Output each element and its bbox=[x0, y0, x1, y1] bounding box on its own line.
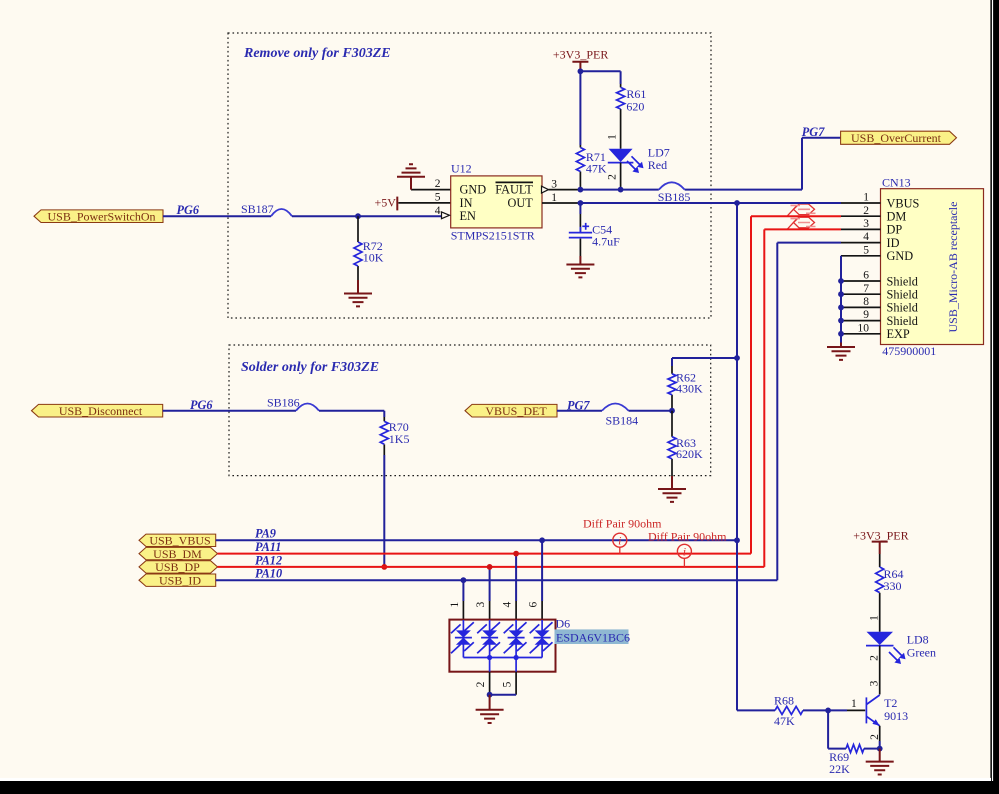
svg-text:22K: 22K bbox=[829, 762, 850, 776]
port flag USB_ID bbox=[139, 573, 216, 587]
diff pair directive marker 1 bbox=[613, 533, 627, 553]
svg-text:GND: GND bbox=[887, 249, 914, 263]
dashed box: Solder only for F303ZE bbox=[229, 345, 711, 476]
node junction emitter/R69 bbox=[877, 746, 883, 752]
wire LD8 to T2 collector bbox=[879, 646, 881, 695]
T2 emitter wire bbox=[879, 726, 881, 749]
node junction R71 on FAULT bbox=[578, 187, 584, 193]
svg-text:SB186: SB186 bbox=[267, 396, 300, 410]
wire USB_DP PA12 bbox=[218, 229, 842, 567]
svg-text:USB_ID: USB_ID bbox=[159, 573, 201, 587]
node junction R62 wire on VBUS vertical bbox=[734, 355, 740, 361]
dashed box: Remove only for F303ZE bbox=[228, 33, 711, 318]
svg-text:Diff Pair 90ohm: Diff Pair 90ohm bbox=[648, 529, 727, 543]
svg-text:Solder only for F303ZE: Solder only for F303ZE bbox=[241, 360, 379, 375]
node junction SB184/R62/R63 bbox=[669, 408, 675, 414]
resistor R62 bbox=[668, 358, 703, 411]
svg-text:47K: 47K bbox=[586, 162, 607, 176]
diff pair directive marker 2 bbox=[677, 544, 691, 567]
resistor R68 bbox=[774, 694, 803, 728]
D6 pin1 stub bbox=[462, 601, 464, 620]
node junction C54 on OUT bbox=[578, 200, 584, 206]
wire D6 pin1 to USB_ID bbox=[462, 580, 464, 601]
solder bridge SB187 bbox=[241, 202, 292, 216]
ground below T2 bbox=[866, 749, 894, 775]
bottom black bar bbox=[0, 781, 999, 794]
TVS diode cell 4 bbox=[530, 620, 553, 658]
LED LD8 bbox=[866, 632, 936, 664]
wire U12 OUT to CN13 VBUS bbox=[542, 202, 580, 204]
differential pair twist marker on DP bbox=[788, 217, 816, 229]
wire SB184 to R62/R63 node bbox=[629, 410, 673, 412]
svg-text:+3V3_PER: +3V3_PER bbox=[853, 528, 908, 542]
solder bridge SB185 bbox=[658, 182, 691, 204]
ground at U12 pin 2 (inverted) bbox=[397, 164, 451, 189]
svg-text:9: 9 bbox=[863, 309, 869, 321]
svg-text:5: 5 bbox=[435, 192, 441, 204]
connector CN13 body bbox=[881, 175, 984, 358]
resistor R70 bbox=[380, 417, 409, 455]
svg-text:U12: U12 bbox=[451, 161, 472, 175]
svg-text:430K: 430K bbox=[676, 382, 703, 396]
node junction vertical on OUT/VBUS bbox=[734, 200, 740, 206]
svg-text:SB184: SB184 bbox=[606, 413, 639, 427]
wire U12 FAULT net bbox=[549, 189, 581, 191]
wire R68 from VBUS vertical bbox=[737, 709, 775, 711]
TVS array D6 body bbox=[449, 620, 555, 672]
ground below C54 bbox=[566, 256, 594, 277]
wire R68 to T2 base bbox=[803, 709, 847, 711]
CN13 pin names bbox=[887, 196, 920, 341]
solder bridge SB184 bbox=[602, 404, 638, 428]
D6 internal common bus bbox=[463, 655, 542, 660]
wire R62 top to VBUS vertical bbox=[672, 357, 737, 359]
capacitor C54 bbox=[569, 203, 620, 256]
svg-text:USB_OverCurrent: USB_OverCurrent bbox=[851, 131, 942, 145]
svg-text:475900001: 475900001 bbox=[882, 344, 936, 358]
svg-text:PA12: PA12 bbox=[255, 553, 282, 567]
svg-text:FAULT: FAULT bbox=[495, 183, 533, 197]
right window edge black band bbox=[990, 0, 999, 794]
svg-text:5: 5 bbox=[502, 681, 514, 687]
svg-text:6: 6 bbox=[528, 601, 540, 607]
D6 pin 5 bbox=[515, 658, 517, 695]
svg-text:330: 330 bbox=[884, 579, 902, 593]
ground below R72 bbox=[344, 280, 372, 306]
solder bridge SB186 bbox=[267, 396, 319, 411]
svg-text:ID: ID bbox=[887, 236, 900, 250]
svg-text:1: 1 bbox=[851, 698, 857, 710]
svg-text:OUT: OUT bbox=[508, 196, 534, 210]
svg-text:LD8: LD8 bbox=[907, 633, 929, 647]
svg-text:VBUS_DET: VBUS_DET bbox=[485, 404, 547, 418]
wire USB_VBUS PA9 bbox=[216, 539, 737, 541]
port flag USB_DM bbox=[139, 547, 218, 561]
svg-text:47K: 47K bbox=[774, 714, 795, 728]
wire D6 pin4 to USB_DM bbox=[515, 554, 517, 601]
svg-text:620K: 620K bbox=[676, 447, 703, 461]
wire D6 pin6 to USB_VBUS bbox=[541, 540, 543, 601]
svg-text:PA11: PA11 bbox=[255, 540, 281, 554]
svg-text:3: 3 bbox=[863, 218, 869, 230]
node junction D6 pin6 on VBUS bbox=[539, 537, 545, 543]
wire R69 branch bbox=[828, 710, 846, 748]
U12 EN input triangle bbox=[442, 212, 450, 219]
differential pair twist marker on DM bbox=[788, 204, 816, 216]
svg-text:USB_DM: USB_DM bbox=[153, 547, 202, 561]
svg-text:4: 4 bbox=[863, 231, 869, 243]
svg-text:2: 2 bbox=[863, 205, 869, 217]
TVS diode cell 2 bbox=[477, 620, 500, 658]
ground below R63 bbox=[658, 476, 686, 502]
port flag VBUS_DET bbox=[465, 404, 557, 418]
svg-text:4.7uF: 4.7uF bbox=[592, 234, 620, 248]
svg-text:1K5: 1K5 bbox=[389, 432, 410, 446]
svg-text:Remove only for F303ZE: Remove only for F303ZE bbox=[243, 46, 391, 61]
node junction at +3V3_PER bbox=[578, 68, 584, 74]
wire +5V to U12 IN bbox=[398, 202, 450, 204]
port flag USB_PowerSwitchOn bbox=[34, 209, 163, 223]
svg-text:DP: DP bbox=[887, 223, 903, 237]
svg-text:PG6: PG6 bbox=[177, 203, 200, 217]
svg-text:R68: R68 bbox=[774, 694, 794, 708]
svg-text:USB_VBUS: USB_VBUS bbox=[149, 534, 210, 548]
ground below CN13 bbox=[827, 343, 855, 360]
CN13 pin stubs 1-10 bbox=[841, 203, 881, 334]
port flag USB_OverCurrent bbox=[841, 131, 957, 145]
node junction D6 pin1 on ID bbox=[461, 577, 467, 583]
svg-text:i: i bbox=[618, 534, 621, 548]
svg-text:USB_Micro-AB receptacle: USB_Micro-AB receptacle bbox=[946, 202, 960, 333]
D6 pin 2 bbox=[489, 658, 491, 695]
resistor R71 bbox=[576, 145, 607, 190]
svg-text:1: 1 bbox=[449, 601, 461, 607]
wire VBUS_DET to SB184 bbox=[557, 410, 602, 412]
svg-text:ESDA6V1BC6: ESDA6V1BC6 bbox=[556, 631, 630, 645]
wire USB_ID PA10 bbox=[216, 243, 841, 581]
svg-text:i: i bbox=[683, 545, 686, 559]
resistor R69 bbox=[829, 745, 864, 776]
TVS diode cell 1 bbox=[451, 620, 474, 658]
D6 pin4 stub bbox=[515, 601, 517, 620]
node junction R70 on DP bbox=[381, 564, 387, 570]
svg-text:+5V: +5V bbox=[375, 195, 397, 209]
svg-text:STMPS2151STR: STMPS2151STR bbox=[451, 229, 535, 243]
svg-text:1: 1 bbox=[869, 615, 881, 621]
svg-text:Red: Red bbox=[648, 158, 667, 172]
node junctions on shield bus bbox=[838, 278, 844, 337]
U12 pin numbers bbox=[435, 178, 557, 217]
D6 value highlight ESDA6V1BC6 bbox=[555, 629, 631, 644]
node junction VBUS line and vertical bbox=[734, 537, 740, 543]
power port +3V3_PER (right) bbox=[853, 528, 908, 554]
svg-text:SB185: SB185 bbox=[658, 190, 691, 204]
svg-text:CN13: CN13 bbox=[882, 175, 911, 189]
resistor R63 bbox=[668, 411, 703, 476]
svg-text:620: 620 bbox=[626, 100, 644, 114]
wire D6 pin3 to USB_DP bbox=[489, 567, 491, 601]
svg-text:SB187: SB187 bbox=[241, 202, 274, 216]
op-amp U12 STMPS2151STR body bbox=[451, 161, 542, 242]
transistor T2 bbox=[866, 695, 908, 726]
svg-text:D6: D6 bbox=[556, 617, 571, 631]
wire D6 pin5 to pin2 bbox=[490, 694, 516, 696]
right edge white pinstripe bbox=[992, 0, 993, 781]
LED LD7 bbox=[608, 146, 670, 173]
wire OUT net bbox=[580, 202, 841, 204]
svg-text:VBUS: VBUS bbox=[887, 196, 920, 210]
svg-text:Shield: Shield bbox=[887, 314, 918, 328]
svg-text:PA10: PA10 bbox=[255, 567, 282, 581]
svg-text:Shield: Shield bbox=[887, 301, 918, 315]
svg-text:PG7: PG7 bbox=[802, 125, 825, 139]
port flag USB_Disconnect bbox=[32, 404, 163, 418]
svg-text:10K: 10K bbox=[363, 250, 384, 264]
node junction D6 ground bbox=[487, 692, 493, 698]
wire SB186 to R70 bbox=[319, 411, 384, 417]
svg-text:Green: Green bbox=[907, 646, 936, 660]
svg-text:GND: GND bbox=[460, 183, 487, 197]
node junction on EN wire at R72 bbox=[355, 213, 361, 219]
D6 pin6 stub bbox=[541, 601, 543, 620]
wire +3V3_PER to R71 and R61 bbox=[580, 71, 620, 145]
LD7 cathode pin wire bbox=[620, 163, 622, 190]
wire VBUS vertical to CN13 pin1 and R68 bbox=[737, 203, 841, 710]
svg-text:EN: EN bbox=[460, 209, 477, 223]
svg-text:PA9: PA9 bbox=[255, 527, 276, 541]
U12 FAULT output triangle pin 3 bbox=[542, 186, 549, 193]
resistor R64 bbox=[876, 554, 904, 632]
node junction base/R69 bbox=[825, 708, 831, 714]
node junction LD7 on FAULT bbox=[618, 187, 624, 193]
svg-text:6: 6 bbox=[863, 270, 869, 282]
svg-text:2: 2 bbox=[475, 681, 487, 687]
port flag USB_DP bbox=[139, 560, 218, 574]
svg-text:USB_DP: USB_DP bbox=[155, 560, 200, 574]
port flag USB_VBUS bbox=[139, 534, 216, 548]
wire R70 to USB_DP line bbox=[383, 455, 385, 567]
wire USB_DM PA11 bbox=[218, 216, 842, 553]
svg-text:7: 7 bbox=[863, 283, 869, 295]
wire CN13 GND/Shield bus bbox=[840, 256, 842, 343]
ground below D6 bbox=[476, 695, 504, 723]
resistor R72 bbox=[354, 216, 384, 280]
svg-text:10: 10 bbox=[858, 322, 870, 334]
TVS diode cell 3 bbox=[504, 620, 527, 658]
svg-text:2: 2 bbox=[606, 174, 618, 180]
svg-text:4: 4 bbox=[502, 601, 514, 607]
wire USB_Disconnect to SB186 bbox=[163, 410, 296, 412]
svg-text:DM: DM bbox=[887, 210, 907, 224]
power port +5V bbox=[375, 195, 398, 210]
svg-text:USB_Disconnect: USB_Disconnect bbox=[59, 404, 143, 418]
resistor R61 bbox=[617, 84, 647, 149]
wire USB_PowerSwitchOn to SB187 bbox=[163, 215, 271, 217]
node junction D6 pin4 on DM bbox=[513, 551, 519, 557]
svg-text:IN: IN bbox=[460, 196, 473, 210]
svg-text:+3V3_PER: +3V3_PER bbox=[553, 47, 608, 61]
CN13 pin numbers bbox=[858, 192, 870, 335]
wire SB187 to U12 EN bbox=[292, 215, 442, 217]
svg-text:8: 8 bbox=[863, 296, 869, 308]
bottom white strip bbox=[0, 778, 991, 781]
svg-text:9013: 9013 bbox=[884, 709, 908, 723]
T2 base pin stub bbox=[847, 709, 865, 711]
svg-text:4: 4 bbox=[435, 205, 441, 217]
svg-text:1: 1 bbox=[863, 192, 869, 204]
svg-text:1: 1 bbox=[606, 134, 618, 140]
svg-text:USB_PowerSwitchOn: USB_PowerSwitchOn bbox=[47, 209, 155, 223]
U12 pin names bbox=[460, 182, 534, 223]
wire R69 to emitter bbox=[864, 748, 880, 750]
svg-text:3: 3 bbox=[868, 680, 880, 686]
svg-text:2: 2 bbox=[869, 655, 881, 661]
svg-text:EXP: EXP bbox=[887, 327, 910, 341]
svg-text:2: 2 bbox=[435, 178, 441, 190]
svg-text:3: 3 bbox=[475, 601, 487, 607]
power port +3V3_PER (top) bbox=[553, 47, 608, 71]
svg-text:5: 5 bbox=[863, 244, 869, 256]
svg-text:Shield: Shield bbox=[887, 288, 918, 302]
D6 pin3 stub bbox=[489, 601, 491, 620]
node junction D6 pin3 on DP bbox=[487, 564, 493, 570]
svg-text:Shield: Shield bbox=[887, 274, 918, 288]
